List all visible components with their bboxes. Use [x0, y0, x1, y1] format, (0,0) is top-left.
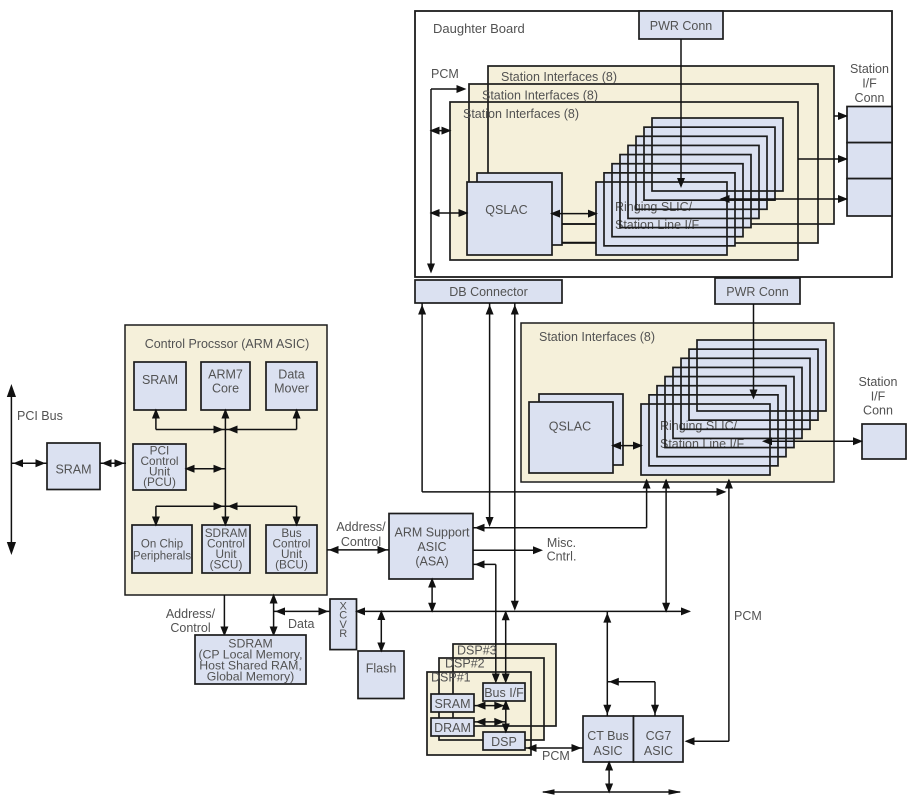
label Bus Control Unit — [272, 526, 310, 572]
svg-text:DSP#3: DSP#3 — [457, 643, 497, 657]
svg-text:I/F: I/F — [871, 389, 886, 403]
DSP#1 box fill — [427, 672, 531, 755]
ringing SLIC stack top fills — [596, 118, 783, 255]
svg-text:PCM: PCM — [542, 749, 570, 763]
svg-text:ASIC: ASIC — [593, 744, 622, 758]
svg-text:Control Procssor (ARM ASIC): Control Procssor (ARM ASIC) — [145, 337, 310, 351]
wire cp central vertical — [221, 409, 229, 527]
wire cp drop BCU — [293, 506, 301, 526]
block SDRAM Control Unit — [202, 525, 250, 573]
svg-text:Station: Station — [859, 375, 898, 389]
block CG7 ASIC — [634, 716, 684, 762]
svg-text:Data: Data — [278, 368, 304, 382]
wire cp drop On Chip — [152, 506, 160, 526]
svg-text:(PCU): (PCU) — [143, 475, 176, 489]
wire DBconn mid — [486, 303, 494, 527]
wire ASA Misc Cntrl — [473, 546, 543, 554]
wire boxA-conn1 — [834, 112, 848, 120]
svg-text:I/F: I/F — [862, 77, 877, 91]
wire cp lower bus — [156, 502, 297, 510]
label Control Procssor (ARM ASIC) — [145, 337, 310, 351]
wire PCI bus vertical — [7, 384, 16, 555]
block On Chip Peripherals — [132, 525, 192, 573]
PWR Conn bottom box — [715, 278, 800, 304]
label SRAM pci — [55, 463, 91, 477]
svg-text:Address/: Address/ — [166, 607, 216, 621]
label Ringing SLIC top — [615, 200, 699, 232]
wire DBconn right — [511, 303, 519, 611]
label ARM Support ASIC — [394, 526, 470, 569]
station interfaces box A fill — [488, 66, 834, 224]
svg-text:Control: Control — [341, 535, 381, 549]
QSLAC lower front box — [529, 402, 613, 473]
svg-text:Misc.: Misc. — [547, 536, 576, 550]
svg-text:Flash: Flash — [366, 662, 397, 676]
label CT Bus ASIC — [587, 729, 628, 758]
QSLAC lower back box — [539, 394, 623, 465]
label Data — [288, 617, 314, 631]
label DSP#1 — [431, 671, 471, 685]
label On Chip Peripherals — [133, 539, 191, 563]
DSP#3 box border — [453, 644, 556, 726]
wire Data line — [274, 607, 330, 615]
wire CG7 branch — [607, 678, 659, 716]
wire QSLAC-SLIC lower 1 — [562, 223, 596, 225]
label QSLAC lower — [549, 420, 591, 434]
svg-text:Station Interfaces (8): Station Interfaces (8) — [501, 70, 617, 84]
svg-text:DRAM: DRAM — [434, 721, 471, 735]
svg-text:ASIC: ASIC — [644, 744, 673, 758]
svg-text:(ASA): (ASA) — [415, 555, 448, 569]
wire cp upper bus — [156, 426, 297, 434]
label Station Interfaces (8) B — [482, 89, 598, 103]
wire SLIC-conn lower double arrow — [762, 437, 863, 445]
svg-text:PWR Conn: PWR Conn — [726, 285, 789, 299]
wire QSLAC-SLIC lower 2 — [562, 242, 596, 244]
wire DRAM-vert double arrow — [474, 718, 506, 726]
wire station riser — [643, 479, 651, 528]
label ARM7 Core — [208, 368, 243, 396]
block SRAM dsp — [431, 694, 474, 712]
block ARM7 Core — [201, 362, 250, 410]
block XCVR — [330, 599, 357, 650]
label Data Mover — [274, 368, 309, 396]
label Station Interfaces (8) C — [463, 107, 579, 121]
wire cp riser Data Mover — [293, 409, 301, 430]
wire PCM station to CG7 — [685, 479, 733, 746]
wire DSP-CTBus PCM double arrow — [525, 744, 583, 752]
DSP#2 box border — [439, 658, 544, 740]
label PCI Bus — [17, 409, 63, 423]
wire PCIbus-SRAM double arrow — [11, 459, 47, 467]
svg-text:Ringing SLIC/: Ringing SLIC/ — [660, 419, 738, 433]
wire PCM-QSLAC double arrow 2 — [430, 209, 469, 217]
label Address/Control left — [166, 607, 216, 635]
label QSLAC top — [485, 203, 527, 217]
label DSP#3 — [457, 643, 497, 657]
wire SRAM-vert double arrow — [474, 702, 506, 710]
svg-text:Cntrl.: Cntrl. — [547, 550, 577, 564]
wire DSP riser to ASA line — [492, 564, 500, 683]
label Address/Control asa — [336, 520, 386, 549]
wire cp riser SRAM — [152, 409, 160, 430]
wire bottom bus double arrow — [542, 789, 682, 794]
station interfaces box A border — [488, 66, 834, 224]
station interfaces box C fill — [450, 102, 798, 260]
ringing SLIC stack lower fills — [641, 340, 826, 475]
svg-text:ASIC: ASIC — [417, 540, 446, 554]
PWR Conn top box — [639, 11, 723, 39]
wire PCM to box B — [431, 85, 467, 93]
DSP#1 box border — [427, 672, 531, 755]
block Bus I/F — [483, 683, 525, 701]
block DRAM dsp — [431, 718, 474, 736]
svg-text:CT Bus: CT Bus — [587, 729, 628, 743]
wire bus-CTBus double arrow — [603, 611, 611, 716]
label Daughter Board — [433, 21, 525, 36]
svg-text:(BCU): (BCU) — [275, 558, 308, 572]
svg-text:QSLAC: QSLAC — [485, 203, 527, 217]
svg-text:PCM: PCM — [734, 609, 762, 623]
svg-text:Station Interfaces (8): Station Interfaces (8) — [482, 89, 598, 103]
svg-text:DSP#1: DSP#1 — [431, 671, 471, 685]
svg-text:DB Connector: DB Connector — [449, 285, 528, 299]
svg-text:SRAM: SRAM — [55, 463, 91, 477]
wire ASA-station left arrow — [473, 524, 647, 532]
svg-text:CG7: CG7 — [646, 729, 672, 743]
wire QSLAC-SLIC lower double arrow — [611, 442, 643, 450]
wire ASA from DSP — [473, 560, 496, 568]
label SDRAM memory — [198, 637, 302, 684]
wire station-bus double arrow — [662, 479, 670, 613]
wire PCM-boxC double arrow 1 — [430, 127, 452, 135]
label Station I/F Conn top — [850, 62, 889, 105]
label PCI Control Unit — [140, 444, 178, 490]
DB Connector box — [415, 280, 562, 303]
QSLAC front box — [467, 182, 552, 255]
wire QSLAC-SLIC double arrow — [550, 210, 598, 218]
block ARM Support ASIC — [389, 514, 473, 580]
svg-text:Ringing SLIC/: Ringing SLIC/ — [615, 200, 693, 214]
block Data Mover — [266, 362, 317, 410]
label SRAM cp — [142, 373, 178, 387]
svg-text:PCM: PCM — [431, 67, 459, 81]
label Station I/F Conn lower — [859, 375, 898, 418]
label CG7 ASIC — [644, 729, 673, 758]
svg-text:Mover: Mover — [274, 382, 309, 396]
wire Flash double arrow — [377, 610, 385, 653]
svg-text:Data: Data — [288, 617, 314, 631]
svg-text:R: R — [339, 628, 347, 640]
svg-text:Daughter Board: Daughter Board — [433, 21, 525, 36]
block DSP — [483, 732, 525, 750]
QSLAC back box — [477, 173, 562, 245]
block CT Bus ASIC — [583, 716, 634, 762]
wire PWR Conn top down arrow — [677, 39, 685, 188]
ringing SLIC stack lower borders — [641, 340, 826, 475]
label SRAM dsp — [434, 697, 470, 711]
svg-text:Station Interfaces (8): Station Interfaces (8) — [539, 330, 655, 344]
svg-text:Bus I/F: Bus I/F — [484, 686, 524, 700]
label PWR Conn top — [650, 19, 713, 33]
block SRAM pci — [47, 443, 100, 490]
svg-text:Address/: Address/ — [336, 520, 386, 534]
wire PCM vertical — [427, 89, 435, 274]
station interfaces box B border — [469, 84, 818, 243]
label PCM top — [431, 67, 459, 81]
block Flash — [358, 651, 404, 699]
svg-text:QSLAC: QSLAC — [549, 420, 591, 434]
label Flash — [366, 662, 397, 676]
svg-text:Peripherals: Peripherals — [133, 551, 191, 563]
block Bus Control Unit — [266, 525, 317, 573]
svg-text:Station: Station — [850, 62, 889, 76]
svg-text:DSP#2: DSP#2 — [445, 657, 485, 671]
svg-text:On Chip: On Chip — [141, 539, 183, 551]
daughter board outline — [415, 11, 892, 277]
wire data CP-SDRAM double arrow — [270, 594, 278, 637]
svg-text:Station Interfaces (8): Station Interfaces (8) — [463, 107, 579, 121]
label DB Connector — [449, 285, 528, 299]
block PCI Control Unit — [133, 444, 186, 490]
wire addr to SDRAM — [220, 595, 228, 637]
station I/F conn box 2 — [847, 143, 892, 179]
label PCM dsp — [542, 749, 570, 763]
svg-text:Conn: Conn — [863, 404, 893, 418]
label DSP — [491, 735, 517, 749]
svg-text:Station Line I/F: Station Line I/F — [615, 218, 699, 232]
label Station Interfaces (8) A — [501, 70, 617, 84]
DSP#2 box fill — [439, 658, 544, 740]
svg-text:ARM7: ARM7 — [208, 368, 243, 382]
station I/F conn box 3 — [847, 179, 892, 216]
label DRAM dsp — [434, 721, 471, 735]
svg-text:Global Memory): Global Memory) — [207, 670, 294, 684]
station interfaces lower box — [521, 323, 834, 482]
label XCVR — [339, 601, 347, 641]
svg-text:Core: Core — [212, 382, 239, 396]
svg-text:ARM Support: ARM Support — [394, 526, 470, 540]
label PWR Conn bottom — [726, 285, 789, 299]
label Bus I/F — [484, 686, 524, 700]
wire CTBus-bottombus double arrow — [605, 761, 613, 794]
svg-text:DSP: DSP — [491, 735, 517, 749]
svg-text:Conn: Conn — [855, 91, 885, 105]
svg-text:Control: Control — [170, 621, 210, 635]
wire PWR Conn bottom down arrow — [750, 304, 758, 400]
label Misc. Cntrl. — [547, 536, 577, 564]
wire DBconn left down-right — [418, 303, 726, 496]
block SRAM cp — [134, 362, 186, 410]
DSP#3 box fill — [453, 644, 556, 726]
wire SLIC-conn3 double arrow — [720, 195, 849, 203]
svg-text:PCI Bus: PCI Bus — [17, 409, 63, 423]
station I/F conn lower box — [862, 424, 906, 459]
svg-text:PWR Conn: PWR Conn — [650, 19, 713, 33]
station I/F conn box 1 — [847, 107, 892, 143]
station interfaces box B fill — [469, 84, 818, 243]
svg-text:(SCU): (SCU) — [210, 558, 243, 572]
label Ringing SLIC lower — [660, 419, 744, 451]
wire PCU-bus double arrow — [185, 465, 226, 473]
label PCM right — [734, 609, 762, 623]
control processor box — [125, 325, 327, 595]
svg-text:SRAM: SRAM — [434, 697, 470, 711]
block SDRAM memory — [195, 635, 306, 684]
wire CP-ASA double arrow — [327, 546, 389, 554]
label DSP#2 — [445, 657, 485, 671]
ringing SLIC stack top borders — [596, 118, 783, 255]
wire main bus — [355, 607, 691, 615]
svg-text:SRAM: SRAM — [142, 373, 178, 387]
wire SRAM-CP double arrow — [100, 459, 126, 467]
wire ASA bottom double arrow — [428, 578, 436, 613]
label Station Interfaces (8) lower — [539, 330, 655, 344]
wire bus to BusIF — [502, 610, 510, 683]
wire BusIF-DSP vertical — [502, 700, 510, 734]
station interfaces box C border — [450, 102, 798, 260]
wire boxC-conn2 — [798, 155, 848, 163]
label SDRAM Control Unit — [205, 526, 248, 572]
